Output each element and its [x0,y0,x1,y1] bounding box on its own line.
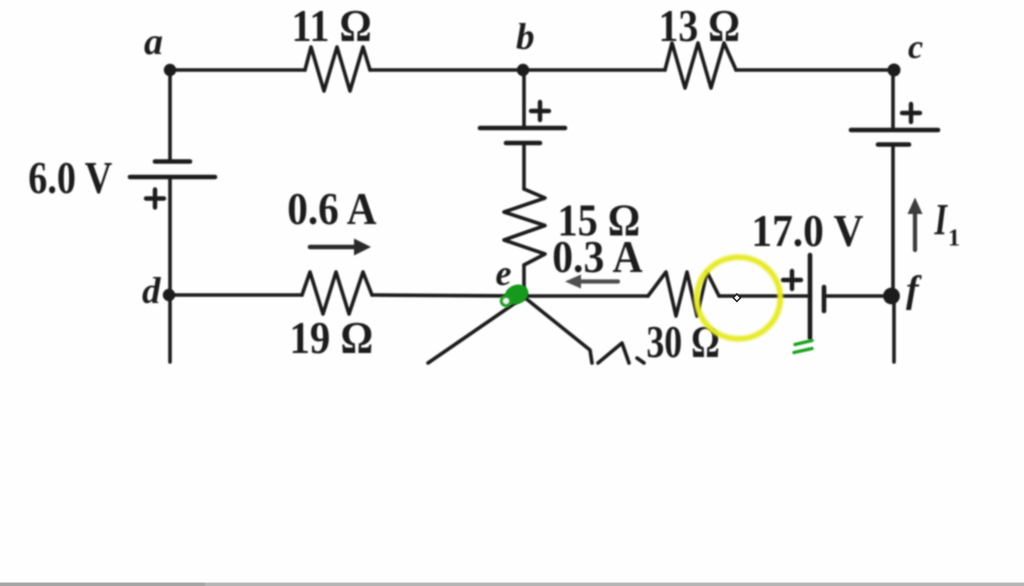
wire a to b (top left horizontal) [170,68,305,72]
svg-text:6.0 V: 6.0 V [28,152,112,203]
plus sign battery B4 [783,271,801,289]
wire battery to d [168,179,172,295]
wire resistor to c [736,68,894,72]
current arrow 0.6 A [310,239,371,256]
green annotation blob on node e [501,281,531,308]
node d [163,289,175,301]
wire resistor to battery 17V [719,294,808,298]
plus sign battery B1 [146,190,164,208]
yellow circle annotation [697,257,781,339]
resistor 30 ohm [648,272,719,316]
wire e to resistor 30 [524,294,648,298]
battery B3 short plate [878,142,909,147]
svg-text:c: c [908,29,923,66]
current arrow I1 (up) [908,198,923,251]
svg-text:b: b [516,17,535,58]
wire resistor to e [372,295,524,296]
battery B3 long plate [851,128,938,133]
wire b to c (top right horizontal) [523,68,665,72]
wire below f [892,296,896,362]
wire b down to battery [522,70,526,126]
wire a down to battery [168,70,172,160]
svg-text:19 Ω: 19 Ω [290,312,374,363]
battery B2 long plate [480,126,565,131]
bottom gray bar [0,583,1024,586]
battery B4 17V short plate [822,287,827,311]
green equals annotation [794,341,812,353]
resistor 19 ohm [302,272,372,314]
svg-text:11 Ω: 11 Ω [292,0,372,51]
node e [520,292,529,301]
cropped zigzag below right diagonal [598,343,629,363]
wire resistor to e [522,265,526,296]
resistor 15 ohm vertical [504,189,545,265]
node f [883,288,900,305]
svg-text:0.3 A: 0.3 A [552,231,642,282]
svg-text:d: d [142,271,161,312]
wire below d [168,295,172,362]
node b [517,64,529,76]
current arrow 0.3 A (left) [565,275,618,289]
battery B1 6.0V long plate [130,175,215,180]
wire e down-right diagonal [524,297,592,363]
svg-text:1: 1 [948,226,960,252]
wire battery to f [826,294,892,298]
mouse cursor diamond [733,294,740,301]
svg-text:a: a [144,21,163,63]
svg-text:I: I [934,195,949,244]
svg-text:0.6 A: 0.6 A [287,183,376,234]
svg-text:17.0 V: 17.0 V [751,205,863,256]
node a [164,64,176,76]
wire c down to battery [891,70,895,128]
wire resistor to b [370,68,523,72]
resistor 11 ohm [305,47,370,91]
battery B1 6.0V short plate [155,159,190,164]
cropped mark [637,358,644,363]
battery B4 17V long plate [808,255,813,338]
resistor 13 ohm [665,43,736,88]
wire d to resistor 19 [169,293,302,297]
battery B2 short plate [506,141,540,146]
plus sign battery B3 [902,104,920,122]
plus sign battery B2 [531,102,549,120]
wire e down-left diagonal [428,297,524,363]
wire battery to f [891,147,895,297]
svg-text:e: e [496,253,512,293]
wire battery to resistor 15 [522,145,526,189]
svg-text:13 Ω: 13 Ω [659,0,741,51]
node c [888,64,901,77]
